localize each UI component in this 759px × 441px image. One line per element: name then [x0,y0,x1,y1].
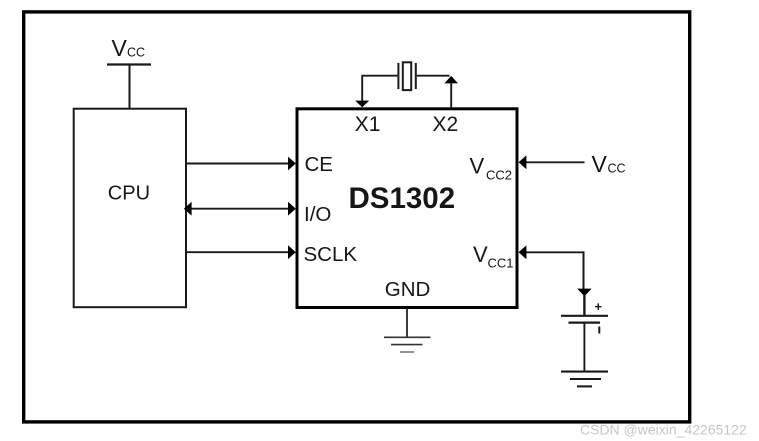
svg-text:CC2: CC2 [486,168,512,183]
wire I/O (bidirectional CPU to DS1302) [184,202,296,216]
wire CE (CPU to DS1302) [186,157,296,171]
ground (DS1302 GND pin) [384,337,431,352]
svg-text:SCLK: SCLK [304,243,358,266]
pin label I/O [304,203,331,226]
wire VCC rail to CPU [129,65,131,109]
svg-text:CC: CC [608,162,626,176]
pin label X1 [355,113,381,136]
pin label VCC2 [470,153,513,182]
svg-text:CPU: CPU [108,182,150,204]
pin label SCLK [304,243,358,266]
wire crystal to X2 [417,76,458,108]
power symbol VCC (CPU supply) [107,35,151,65]
wire SCLK (CPU to DS1302) [186,245,296,259]
svg-text:V: V [473,242,488,267]
IC U1 DS1302 [297,109,517,308]
svg-text:GND: GND [385,278,431,301]
wire VCC1 to battery [519,245,592,315]
wire crystal to X1 [355,75,397,107]
svg-text:X2: X2 [433,113,459,136]
battery BT1 [561,299,608,334]
watermark [580,422,747,438]
ground (battery) [561,372,608,387]
pin label GND [385,278,431,301]
svg-text:I/O: I/O [304,203,331,226]
svg-text:CSDN @weixin_42265122: CSDN @weixin_42265122 [580,422,747,438]
svg-text:CC1: CC1 [488,255,514,270]
wire battery to ground [583,323,585,371]
svg-text:DS1302: DS1302 [349,182,456,215]
svg-text:CE: CE [305,153,333,176]
CPU block [74,109,186,308]
svg-text:V: V [592,151,608,177]
crystal Y1 [398,62,415,90]
svg-text:V: V [470,153,485,178]
wire GND pin to ground [406,308,408,337]
svg-text:CC: CC [127,46,145,60]
svg-text:X1: X1 [355,113,381,136]
pin label CE [305,153,333,176]
power label VCC (right) [592,151,626,177]
pin label X2 [433,113,459,136]
svg-text:+: + [595,299,603,314]
pin label VCC1 [473,242,514,271]
svg-text:V: V [112,35,128,61]
wire VCC to VCC2 pin [519,155,585,169]
